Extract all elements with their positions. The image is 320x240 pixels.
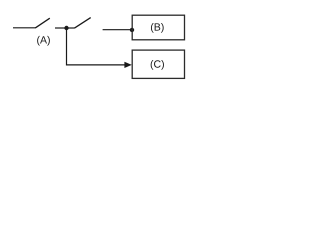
label (C): [151, 60, 164, 70]
wire from node A down and right to box C: [67, 28, 125, 65]
box C: [132, 50, 184, 78]
arrowhead into box C: [124, 62, 131, 68]
wire to box B: [103, 29, 132, 31]
switch S1 left terminal wire: [13, 27, 36, 29]
switch S1 blade: [35, 18, 50, 28]
node A junction dot: [64, 26, 68, 30]
switch S1 right terminal stub: [55, 27, 67, 29]
junction dot at box B: [130, 28, 134, 32]
switch S2 left wire: [67, 27, 75, 29]
label (B): [151, 23, 164, 33]
switch S2 blade: [75, 18, 91, 29]
box B: [132, 15, 184, 40]
label (A): [37, 36, 50, 46]
